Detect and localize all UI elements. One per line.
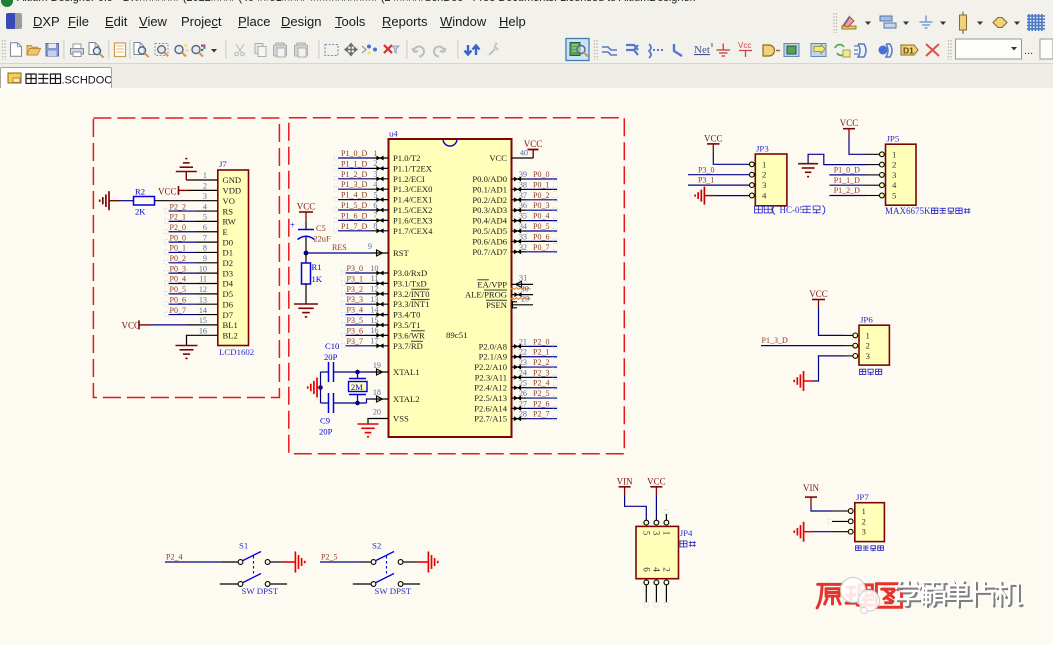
svg-text:+: + — [290, 220, 295, 230]
label MAX6675K module caption — [885, 206, 970, 216]
wire ground jog to JP5 pin2 — [808, 154, 879, 164]
svg-text:15: 15 — [199, 316, 207, 325]
wire VIN to JP4 pin5 — [625, 496, 647, 520]
svg-text:P2_0: P2_0 — [533, 337, 549, 346]
power port VCC (J7 VDD) — [158, 186, 190, 197]
svg-text:11: 11 — [371, 274, 379, 283]
svg-text:1: 1 — [862, 506, 866, 516]
svg-text:12: 12 — [199, 285, 207, 294]
wire net P2_0 to J7 pin 6 — [165, 223, 218, 234]
svg-text:JP4: JP4 — [680, 528, 693, 538]
svg-text:P2.2/A10: P2.2/A10 — [474, 362, 507, 372]
svg-text:4: 4 — [892, 180, 897, 190]
svg-text:P0.3/AD3: P0.3/AD3 — [472, 205, 507, 215]
svg-text:3: 3 — [892, 170, 897, 180]
wire VCC to C5 — [305, 222, 307, 229]
wire U4 VCC pin 40 — [512, 149, 534, 159]
svg-text:1: 1 — [373, 149, 377, 158]
U4 right pin names VCC and P0 — [472, 153, 507, 257]
svg-text:P0_0: P0_0 — [170, 233, 186, 242]
junction node crystal ground — [318, 385, 323, 390]
ground (S1, rotated red) — [284, 552, 305, 573]
svg-text:BL2: BL2 — [223, 330, 238, 340]
svg-text:P3_4: P3_4 — [347, 306, 363, 315]
svg-text:2: 2 — [866, 341, 870, 351]
svg-text:SW DPST: SW DPST — [375, 586, 412, 596]
svg-text:30: 30 — [521, 285, 529, 294]
capacitor C9 plates — [329, 393, 334, 413]
svg-text:22: 22 — [519, 348, 527, 357]
ground (JP6, rotated red) — [794, 371, 813, 391]
svg-text:P1.2/ECI: P1.2/ECI — [393, 174, 425, 184]
svg-text:P1_0_D: P1_0_D — [834, 166, 860, 175]
svg-text:16: 16 — [370, 326, 378, 335]
capacitor C5 22uF — [290, 220, 331, 244]
svg-text:P0_5: P0_5 — [170, 285, 186, 294]
svg-text:S1: S1 — [239, 541, 248, 551]
label buzzer caption — [860, 369, 866, 374]
svg-text:P3_3: P3_3 — [347, 295, 363, 304]
svg-text:25: 25 — [519, 379, 527, 388]
ground (J7 pin1, inverted) — [176, 159, 197, 180]
wire VCC to JP6 pin1 — [819, 308, 853, 335]
svg-text:P2_0: P2_0 — [170, 223, 186, 232]
wire R1 to ground — [305, 284, 307, 304]
svg-text:R2: R2 — [135, 187, 145, 197]
svg-text:P1.5/CEX2: P1.5/CEX2 — [393, 205, 432, 215]
svg-text:P0.4/AD4: P0.4/AD4 — [472, 216, 507, 226]
wire net P1_3_D to JP6 pin2 — [761, 336, 853, 345]
ground (JP5 pin2) — [798, 164, 818, 177]
svg-text:P2_4: P2_4 — [533, 379, 549, 388]
svg-text:P0_0: P0_0 — [533, 170, 549, 179]
svg-text:GND: GND — [223, 175, 242, 185]
svg-text:11: 11 — [199, 275, 207, 284]
wire net P1_1_D to U4 pin 2 — [334, 159, 389, 171]
svg-text:P3.7/RD: P3.7/RD — [393, 341, 423, 351]
svg-text:P2_2: P2_2 — [533, 358, 549, 367]
svg-text:3: 3 — [651, 531, 661, 536]
svg-text:36: 36 — [519, 201, 527, 210]
wire net P2_2 from U4 pin 23 — [512, 358, 558, 369]
U4 right pin names EA ALE PSEN — [465, 279, 508, 309]
svg-text:2: 2 — [892, 160, 896, 170]
svg-text:P1_7_D: P1_7_D — [341, 222, 367, 231]
svg-text:13: 13 — [199, 295, 207, 304]
svg-text:C9: C9 — [320, 416, 330, 426]
svg-text:D0: D0 — [223, 237, 234, 247]
svg-text:3: 3 — [866, 351, 871, 361]
svg-text:15: 15 — [370, 316, 378, 325]
svg-text:VSS: VSS — [393, 414, 409, 424]
power port VCC (U4 pin 40) — [524, 139, 543, 158]
svg-text:16: 16 — [199, 326, 207, 335]
wire net P2_7 from U4 pin 28 — [512, 410, 558, 421]
svg-text:40: 40 — [520, 149, 528, 158]
wire net P2_3 from U4 pin 24 — [512, 368, 558, 379]
svg-text:24: 24 — [519, 368, 527, 377]
capacitor C10 labels — [324, 341, 339, 362]
svg-text:1: 1 — [661, 531, 671, 536]
wire net P0_5 to J7 pin 12 — [165, 285, 218, 296]
svg-text:.SCHDOC: .SCHDOC — [62, 75, 112, 87]
wire C5 to junction — [305, 237, 307, 253]
ground (JP3 pin4, rotated) — [695, 187, 716, 205]
wire U4 ALE/PROG pin 30 — [512, 292, 534, 297]
ground (JP7, rotated red) — [794, 522, 813, 542]
no-ERC wavy marker on pin 29 — [511, 295, 531, 304]
svg-text:P2.1/A9: P2.1/A9 — [479, 352, 507, 362]
capacitor C10 plates — [329, 362, 334, 382]
svg-text:P3.2/INT0: P3.2/INT0 — [393, 289, 430, 299]
svg-text:P0_6: P0_6 — [170, 295, 186, 304]
wire net P2_4 to S1 — [165, 553, 238, 563]
svg-text:10: 10 — [370, 264, 378, 273]
ground (VSS, red) — [358, 424, 379, 437]
svg-text:89c51: 89c51 — [446, 330, 468, 340]
svg-text:20P: 20P — [324, 352, 338, 362]
wire net P0_3 from U4 pin 36 — [512, 201, 558, 212]
svg-text:P3.1/TxD: P3.1/TxD — [393, 278, 427, 288]
wire net P1_3_D to U4 pin 4 — [334, 180, 389, 192]
wire net P1_1_D to JP5 pin 4 — [829, 176, 879, 185]
svg-text:P2_4: P2_4 — [166, 553, 182, 562]
svg-text:2: 2 — [203, 182, 207, 191]
svg-text:5: 5 — [373, 190, 377, 199]
svg-text:C10: C10 — [325, 341, 339, 351]
wire stubs JP4 bottom pins — [644, 585, 669, 607]
svg-text:6: 6 — [203, 223, 207, 232]
power port VCC (JP3 pin1) — [704, 133, 723, 152]
svg-text:RST: RST — [393, 248, 410, 258]
wire VCC to JP3 pin1 — [713, 152, 749, 164]
wire net P0_2 to J7 pin 9 — [165, 254, 218, 265]
svg-text:P0_3: P0_3 — [170, 264, 186, 273]
wire S1 to ground — [270, 561, 284, 563]
svg-text:Net: Net — [694, 44, 710, 56]
wire J7 pin1 — [186, 179, 218, 181]
wire crystal left rail — [320, 372, 322, 403]
wire net P0_7 from U4 pin 32 — [512, 243, 558, 254]
connector JP6 body — [853, 315, 890, 365]
wire net P2_5 from U4 pin 26 — [512, 389, 558, 400]
watermark red text — [817, 584, 902, 608]
svg-text:32: 32 — [519, 243, 527, 252]
svg-text:9: 9 — [368, 242, 372, 251]
svg-text:P0_6: P0_6 — [533, 232, 549, 241]
svg-text:P2_6: P2_6 — [533, 399, 549, 408]
wire JP7 pin3 to ground — [813, 531, 848, 533]
svg-text:P3_5: P3_5 — [347, 316, 363, 325]
svg-text:P1_3_D: P1_3_D — [341, 180, 367, 189]
svg-text:2: 2 — [862, 516, 866, 526]
svg-text:VCC: VCC — [840, 118, 859, 128]
junction node XTAL2/crystal — [355, 401, 360, 406]
svg-text:VCC: VCC — [704, 133, 723, 143]
wire net P2_1 to J7 pin 5 — [165, 213, 218, 224]
svg-text:P2_2: P2_2 — [170, 202, 186, 211]
svg-text:P2_1: P2_1 — [170, 213, 186, 222]
svg-text:RW: RW — [223, 217, 237, 227]
svg-text:7: 7 — [373, 211, 377, 220]
svg-text:VCC: VCC — [122, 320, 141, 330]
svg-text:P0.1/AD1: P0.1/AD1 — [472, 184, 507, 194]
svg-text:6: 6 — [641, 567, 651, 572]
svg-text:22uF: 22uF — [314, 235, 331, 244]
svg-text:P1_3_D: P1_3_D — [762, 336, 788, 345]
svg-text:P0_1: P0_1 — [533, 180, 549, 189]
svg-text:P3.0/RxD: P3.0/RxD — [393, 268, 427, 278]
wire net P0_7 to J7 pin 14 — [165, 306, 218, 317]
svg-text:HC-05: HC-05 — [780, 205, 805, 215]
switch S2 SW DPST — [353, 541, 420, 597]
svg-text:D6: D6 — [223, 299, 234, 309]
svg-text:2M: 2M — [351, 383, 363, 392]
svg-text:BL1: BL1 — [223, 320, 238, 330]
wire net P1_2_D to JP5 pin 5 — [829, 186, 879, 195]
wire net P2_5 to S2 — [320, 553, 371, 563]
svg-text:VO: VO — [223, 196, 235, 206]
svg-text:P0.2/AD2: P0.2/AD2 — [472, 195, 507, 205]
svg-text:P0_4: P0_4 — [170, 275, 186, 284]
connector J7 LCD1602 body — [218, 159, 249, 346]
svg-text:P1.7/CEX4: P1.7/CEX4 — [393, 226, 433, 236]
svg-text:P1.4/CEX1: P1.4/CEX1 — [393, 195, 432, 205]
svg-text:...: ... — [1024, 45, 1033, 57]
wire net P0_2 from U4 pin 37 — [512, 191, 558, 202]
svg-text:P2.6/A14: P2.6/A14 — [474, 403, 507, 413]
svg-text:D3: D3 — [223, 268, 234, 278]
svg-text:1: 1 — [892, 149, 896, 159]
wire net P1_0_D to JP5 pin 3 — [829, 166, 879, 175]
svg-text:17: 17 — [370, 337, 378, 346]
menu bar — [0, 9, 1053, 36]
wire U4 EA/VPP pin 31 — [512, 274, 534, 288]
svg-text:J7: J7 — [219, 159, 227, 169]
svg-text:3: 3 — [373, 170, 377, 179]
svg-text:39: 39 — [519, 170, 527, 179]
svg-text:ALE/PROG: ALE/PROG — [465, 290, 507, 300]
wire net P3_5 to U4 pin 15 — [342, 316, 389, 328]
power port VIN (JP7) — [803, 483, 819, 506]
svg-text:Vcc: Vcc — [738, 41, 751, 50]
svg-text:8: 8 — [203, 244, 207, 253]
svg-text:P3.6/WR: P3.6/WR — [393, 330, 425, 340]
svg-text:MAX6675K: MAX6675K — [885, 206, 931, 216]
svg-text:19: 19 — [373, 361, 381, 370]
wire net P3_1 to JP3 pin3 — [688, 176, 750, 185]
svg-text:E: E — [223, 227, 228, 237]
svg-text:37: 37 — [519, 191, 527, 200]
svg-text:VCC: VCC — [158, 187, 177, 197]
wire stub JP4 pin1 — [664, 510, 669, 521]
power port VCC (above C5) — [297, 202, 316, 223]
connector JP7 body — [848, 492, 884, 541]
svg-text:6: 6 — [373, 201, 377, 210]
crystal Y1 2M — [349, 372, 368, 403]
svg-text:D2: D2 — [223, 258, 234, 268]
svg-text:P0.5/AD5: P0.5/AD5 — [472, 226, 507, 236]
svg-text:P1.6/CEX3: P1.6/CEX3 — [393, 215, 432, 225]
89c51 MCU U4 body — [389, 129, 512, 438]
svg-text:4: 4 — [373, 180, 377, 189]
wire net P0_0 to J7 pin 7 — [165, 233, 218, 244]
wire net P1_2_D to U4 pin 3 — [334, 170, 389, 182]
wire net P0_5 from U4 pin 34 — [512, 222, 558, 233]
svg-text:P1_2_D: P1_2_D — [834, 186, 860, 195]
svg-text:P1_4_D: P1_4_D — [341, 191, 367, 200]
svg-text:P3_0: P3_0 — [698, 165, 714, 174]
ground (R2 left, rotated) — [100, 191, 120, 210]
svg-text:P3_2: P3_2 — [347, 285, 363, 294]
tab bar — [0, 64, 1053, 89]
title bar sliver — [0, 0, 1053, 9]
svg-text:1: 1 — [762, 159, 766, 169]
svg-text:27: 27 — [519, 399, 527, 408]
svg-text:VIN: VIN — [617, 476, 633, 486]
svg-text:P1_1_D: P1_1_D — [341, 159, 367, 168]
svg-text:P3_7: P3_7 — [347, 337, 363, 346]
wire net P3_3 to U4 pin 13 — [342, 295, 389, 307]
wire net P0_4 to J7 pin 11 — [165, 275, 218, 286]
svg-text:D1: D1 — [223, 248, 234, 258]
svg-text:P2.5/A13: P2.5/A13 — [474, 393, 507, 403]
svg-text:2K: 2K — [135, 207, 146, 217]
svg-text:2: 2 — [762, 170, 766, 180]
svg-text:2: 2 — [373, 159, 377, 168]
svg-text:5: 5 — [641, 531, 651, 536]
J7 pin names and numbers — [199, 171, 241, 340]
wire S2 to ground — [403, 561, 417, 563]
wire net P1_0_D to U4 pin 1 — [334, 149, 389, 161]
svg-text:P2_5: P2_5 — [321, 553, 337, 562]
power port VIN (JP4) — [617, 476, 633, 496]
wire XTAL2 net — [321, 388, 389, 403]
wire net P3_7 to U4 pin 17 — [342, 337, 389, 349]
svg-text:XTAL2: XTAL2 — [393, 394, 420, 404]
wire net P0_1 from U4 pin 38 — [512, 180, 558, 191]
svg-text:14: 14 — [370, 305, 378, 314]
power port VCC (JP4) — [647, 476, 666, 496]
svg-text:D7: D7 — [223, 310, 234, 320]
svg-text:7: 7 — [203, 233, 207, 242]
power port VCC (J7 BL1) — [122, 320, 153, 330]
svg-text:VDD: VDD — [223, 186, 242, 196]
wire net P0_0 from U4 pin 39 — [512, 170, 558, 181]
svg-text:28: 28 — [519, 410, 527, 419]
svg-text:P1_1_D: P1_1_D — [834, 176, 860, 185]
svg-text:13: 13 — [370, 295, 378, 304]
svg-text:D4: D4 — [223, 279, 234, 289]
svg-text:JP3: JP3 — [756, 144, 769, 154]
wire VCC to JP4 pin3 — [655, 496, 657, 520]
svg-text:P1_5_D: P1_5_D — [341, 201, 367, 210]
svg-text:P0_7: P0_7 — [170, 306, 186, 315]
svg-text:RS: RS — [223, 206, 234, 216]
dashed partition box (MCU section) — [289, 118, 625, 454]
svg-text:38: 38 — [519, 180, 527, 189]
dashed partition box (LCD section) — [93, 118, 279, 398]
power port VCC (JP6 pin1) — [809, 289, 828, 308]
junction node XTAL1/crystal — [355, 370, 360, 375]
wire net P3_0 to U4 pin 10 — [342, 264, 389, 276]
wire J7 pin16 to ground — [187, 335, 218, 345]
connector JP3 body — [750, 144, 787, 206]
svg-text:3: 3 — [203, 192, 207, 201]
svg-text:JP5: JP5 — [887, 134, 900, 144]
svg-text:P1_0_D: P1_0_D — [341, 149, 367, 158]
wire net P3_4 to U4 pin 14 — [342, 305, 389, 317]
svg-text:VCC: VCC — [297, 202, 316, 212]
watermark gray-white text — [896, 580, 1022, 608]
wire U4 PSEN pin 29 — [512, 302, 534, 308]
svg-text:P2_3: P2_3 — [533, 368, 549, 377]
svg-text:21: 21 — [519, 337, 527, 346]
svg-text:JP7: JP7 — [856, 492, 869, 502]
svg-text:4: 4 — [762, 191, 767, 201]
svg-text:18: 18 — [373, 388, 381, 397]
svg-text:P3_1: P3_1 — [698, 176, 714, 185]
svg-text:P0_4: P0_4 — [533, 212, 549, 221]
wire VIN to JP7 pin1 — [811, 506, 848, 511]
wire J7 pin2 — [190, 189, 218, 191]
wire net P2_1 from U4 pin 22 — [512, 348, 558, 359]
ground (J7 BL2) — [176, 346, 198, 359]
svg-text:26: 26 — [519, 389, 527, 398]
svg-text:20P: 20P — [319, 427, 333, 437]
svg-text:P1_6_D: P1_6_D — [341, 211, 367, 220]
svg-text:P3_6: P3_6 — [347, 326, 363, 335]
svg-text:u4: u4 — [389, 129, 398, 139]
svg-text:3: 3 — [862, 527, 867, 537]
connector JP4 body — [636, 520, 693, 585]
svg-text:P2.7/A15: P2.7/A15 — [474, 414, 507, 424]
svg-text:29: 29 — [521, 295, 529, 304]
svg-text:5: 5 — [203, 213, 207, 222]
wire net P3_1 to U4 pin 11 — [342, 274, 389, 286]
svg-text:P2_5: P2_5 — [533, 389, 549, 398]
svg-text:P3.3/INT1: P3.3/INT1 — [393, 299, 430, 309]
svg-text:33: 33 — [519, 232, 527, 241]
svg-text:C5: C5 — [316, 224, 326, 233]
wire stub JP7 pin2 — [828, 519, 849, 524]
wire net P2_6 from U4 pin 27 — [512, 399, 558, 410]
wire net P3_6 to U4 pin 16 — [342, 326, 389, 338]
svg-text:VCC: VCC — [524, 139, 543, 149]
svg-text:VIN: VIN — [803, 483, 819, 493]
label power-interface caption (JP7) — [856, 546, 862, 551]
no-ERC wavy marker on pin 30 — [511, 285, 531, 294]
svg-text:4: 4 — [203, 202, 207, 211]
resistor R2 2K — [134, 187, 155, 217]
svg-text:P0_2: P0_2 — [533, 191, 549, 200]
svg-text:12: 12 — [370, 285, 378, 294]
wire net P3_0 to JP3 pin2 — [688, 165, 750, 174]
svg-text:1K: 1K — [312, 274, 323, 284]
svg-text:P2.0/A8: P2.0/A8 — [479, 341, 507, 351]
wire JP6 pin3 to ground — [813, 356, 853, 381]
ground (crystal, rotated red) — [308, 378, 321, 398]
svg-text:34: 34 — [519, 222, 527, 231]
svg-text:P0.7/AD7: P0.7/AD7 — [472, 247, 507, 257]
wire net P0_6 to J7 pin 13 — [165, 295, 218, 306]
U4 left pin names P1 — [393, 153, 433, 236]
wire junction to R1 — [305, 253, 307, 263]
wire net P2_2 to J7 pin 4 — [165, 202, 218, 213]
svg-text:3: 3 — [762, 180, 767, 190]
wire net P2_4 from U4 pin 25 — [512, 379, 558, 390]
wire net P0_4 from U4 pin 35 — [512, 212, 558, 223]
